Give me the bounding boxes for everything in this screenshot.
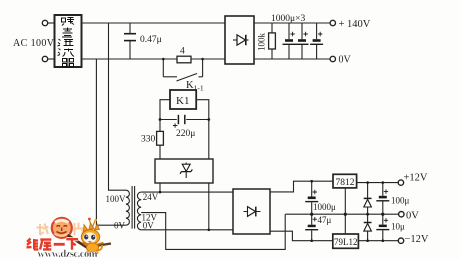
terminal -12V [398, 238, 403, 243]
svg-text:0.47μ: 0.47μ [140, 35, 162, 45]
svg-text:0V: 0V [143, 220, 155, 230]
svg-text:10μ: 10μ [391, 222, 405, 232]
svg-text:−12V: −12V [405, 234, 429, 245]
capacitor 10u [382, 214, 384, 224]
capacitor 220u polarity plus [173, 123, 177, 127]
wire regulators ground leg [344, 188, 346, 234]
wire 0V upper rail [254, 58, 330, 60]
bridge BR1 diode symbol [233, 39, 249, 41]
wire BR2 plus output to 7812 input [270, 181, 333, 192]
terminal 0V output [399, 212, 404, 217]
transformer T1 core [131, 186, 133, 229]
svg-text:330: 330 [141, 135, 156, 145]
svg-text:7812: 7812 [336, 178, 355, 188]
svg-text:220μ: 220μ [176, 129, 195, 139]
svg-text:0V: 0V [114, 220, 126, 230]
wire secondary 0V tap to bridge BR2 [141, 229, 233, 231]
svg-text:K1: K1 [176, 95, 189, 107]
regulator U2 79L12 box [333, 234, 359, 248]
watermark magnifier seal [52, 218, 72, 238]
diode D1 [367, 183, 369, 200]
wire trigger box left-bottom pin to 24V line [159, 183, 161, 192]
AC input terminal bottom [42, 56, 47, 61]
AC input terminal top [42, 20, 47, 25]
regulator U1 7812 box [333, 174, 357, 188]
svg-text:1000μ: 1000μ [313, 202, 336, 212]
wire secondary 12V tap [141, 213, 285, 250]
junction dots middle [162, 58, 165, 61]
bridge rectifier BR1 box [225, 16, 254, 64]
bridge rectifier BR2 box [233, 189, 270, 234]
svg-text:100k: 100k [257, 33, 267, 52]
watermark faint char pian [75, 223, 84, 236]
capacitor C1 1000u (1 of 3) [283, 23, 296, 59]
terminal 0V upper [330, 56, 335, 61]
capacitor C2 1000u (2 of 3) [296, 23, 309, 59]
watermark mascot [81, 218, 103, 255]
watermark magnifier handle [68, 235, 88, 248]
transformer T1 secondary winding [137, 192, 141, 230]
watermark faint char zhao [37, 223, 84, 236]
zener diode symbol [185, 163, 187, 179]
wire BR2 minus output to 79L12 input [270, 231, 333, 241]
svg-text:47μ: 47μ [318, 215, 332, 225]
svg-text:0V: 0V [406, 210, 419, 221]
capacitor 1000u lower [311, 181, 313, 196]
svg-text:AC 100V: AC 100V [13, 38, 55, 49]
svg-text:100μ: 100μ [391, 196, 410, 206]
capacitor 100u [382, 183, 384, 196]
switch K1-1 blade [177, 74, 198, 82]
svg-text:+ 140V: + 140V [339, 19, 371, 30]
svg-text:79L12: 79L12 [334, 237, 358, 247]
capacitor C3 1000u (3 of 3) [310, 23, 323, 59]
resistor R 4 ohm [177, 56, 191, 63]
resistor 330 [157, 131, 164, 145]
wire K1 right lead [196, 100, 209, 159]
svg-text:www.dzsc.com: www.dzsc.com [38, 249, 98, 259]
junction dots lower [310, 213, 313, 216]
wire trigger box right-bottom pin to 0V tap line [208, 183, 210, 230]
trigger box with zener [155, 159, 213, 183]
transformer T1 primary winding [126, 190, 130, 225]
svg-text:1000μ×3: 1000μ×3 [271, 14, 305, 24]
switch K1-1 branch wires [162, 59, 164, 77]
svg-text:4: 4 [180, 47, 185, 57]
capacitor 47u [311, 214, 313, 225]
svg-text:100V: 100V [106, 194, 127, 204]
wire K1 left lead [160, 100, 170, 132]
wire bottom AC rail [48, 58, 54, 60]
capacitor 220u leads [160, 119, 177, 121]
wire dropper from top rail to transformer primary top [109, 23, 126, 190]
resistor 100k [271, 23, 273, 33]
capacitor 220u plates [177, 115, 179, 124]
wire secondary 24V tap to bridge BR2 [141, 191, 233, 193]
terminal +12V [398, 180, 403, 185]
wire dropper from bottom rail to transformer primary bottom [96, 59, 126, 225]
capacitor 0.47u [129, 23, 131, 34]
wire +140V rail [254, 22, 330, 24]
terminal +140V [330, 20, 335, 25]
watermark red text wei ku yi xia [27, 239, 79, 250]
wire +12V rail [357, 182, 399, 184]
svg-text:0V: 0V [339, 55, 352, 66]
wire 0V output rail [285, 213, 398, 215]
svg-text:+12V: +12V [404, 173, 428, 184]
diode D2 [367, 214, 369, 223]
noise filter box 噪声滤波器 [55, 15, 82, 67]
svg-text:24V: 24V [143, 192, 159, 202]
wire top AC rail [48, 22, 54, 24]
bridge BR2 diode symbol [244, 211, 261, 213]
wire -12V rail [358, 240, 398, 242]
relay coil K1 box [170, 90, 196, 109]
